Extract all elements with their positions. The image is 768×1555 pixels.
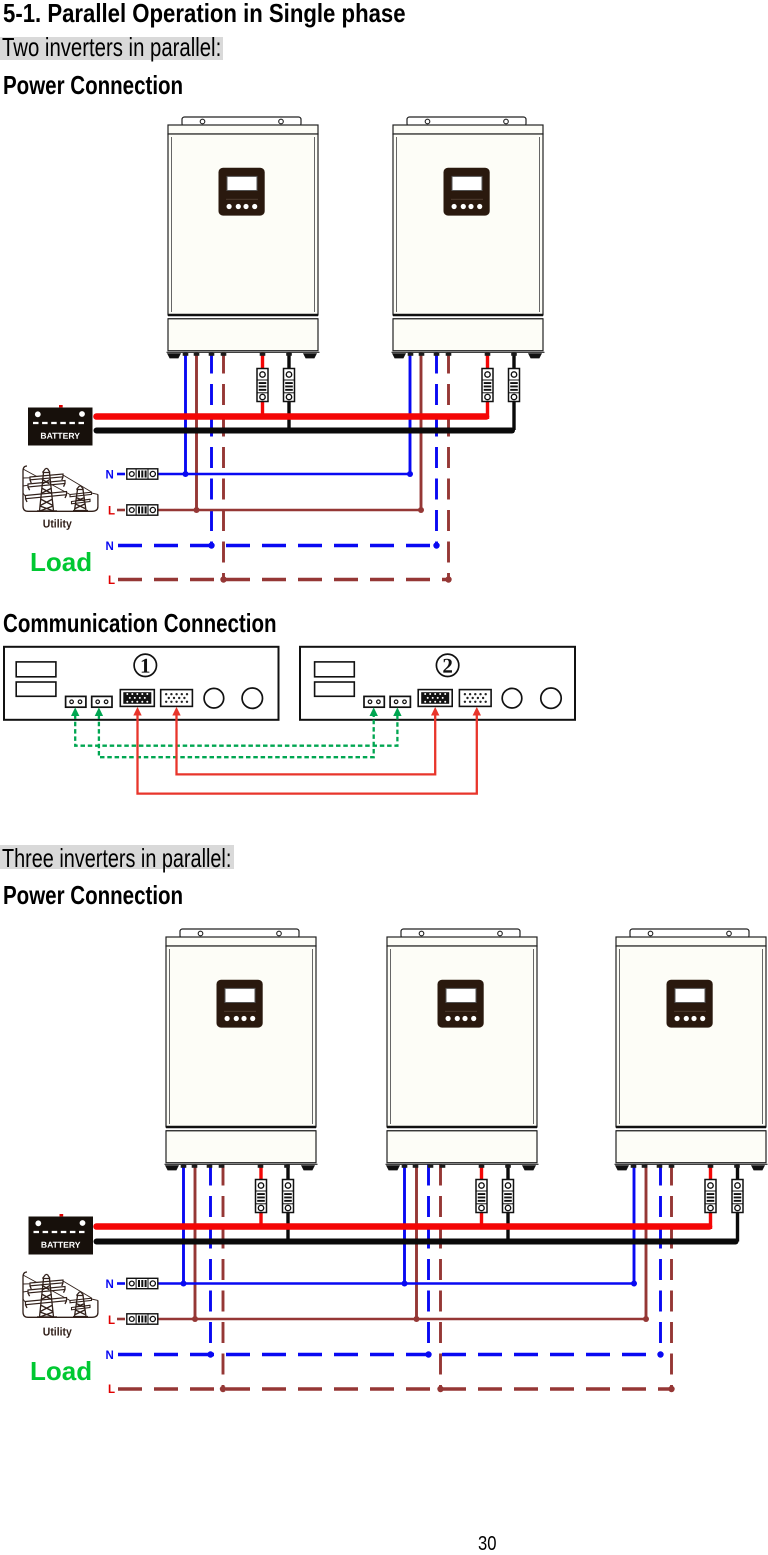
svg-text:L: L	[108, 1384, 115, 1396]
svg-text:N: N	[106, 1350, 114, 1362]
svg-text:N: N	[106, 541, 114, 553]
svg-text:L: L	[108, 1315, 115, 1327]
svg-text:N: N	[106, 470, 114, 482]
svg-text:Utility: Utility	[43, 1326, 73, 1338]
svg-text:L: L	[108, 575, 115, 587]
svg-text:2: 2	[442, 654, 453, 678]
svg-text:N: N	[106, 1279, 114, 1291]
svg-text:Utility: Utility	[43, 518, 73, 530]
svg-text:1: 1	[140, 654, 151, 678]
svg-text:L: L	[108, 506, 115, 518]
